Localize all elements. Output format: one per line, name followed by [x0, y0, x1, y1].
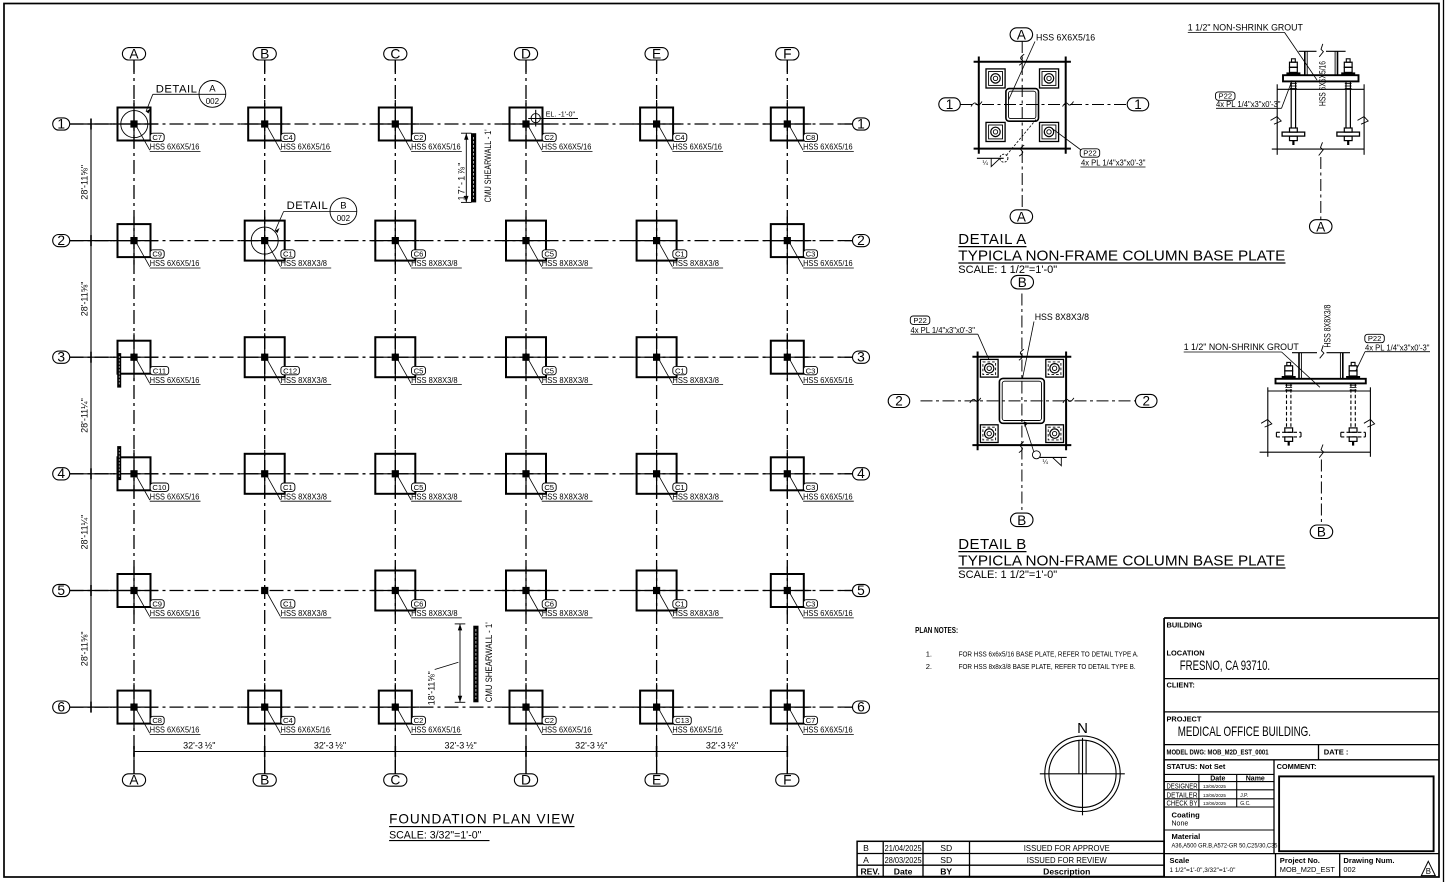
svg-text:A: A — [1017, 209, 1026, 224]
svg-text:28'-11⅝": 28'-11⅝" — [80, 282, 90, 317]
svg-text:HSS 6X6X5/16: HSS 6X6X5/16 — [672, 725, 722, 735]
svg-text:REV.: REV. — [860, 867, 879, 877]
detail A elevation P22 label — [1216, 80, 1293, 109]
detail B anchor bolt bottom-left — [980, 425, 998, 443]
svg-text:ISSUED FOR REVIEW: ISSUED FOR REVIEW — [1027, 855, 1108, 865]
grid bubble 5 left — [53, 583, 70, 598]
svg-text:DETAIL: DETAIL — [156, 83, 198, 95]
svg-text:HSS 8X8X3/8: HSS 8X8X3/8 — [542, 375, 589, 385]
svg-text:17'-1⅞": 17'-1⅞" — [457, 163, 467, 201]
svg-text:HSS 6X6X5/16: HSS 6X6X5/16 — [150, 142, 200, 152]
title block texts — [1167, 621, 1395, 874]
svg-text:HSS 6X6X5/16: HSS 6X6X5/16 — [411, 725, 461, 735]
grid line D vertical — [525, 60, 527, 774]
svg-text:DATE :: DATE : — [1324, 747, 1349, 756]
column C9 at A2 — [110, 217, 201, 269]
svg-text:LOCATION: LOCATION — [1167, 648, 1205, 657]
svg-text:Drawing Num.: Drawing Num. — [1343, 856, 1394, 865]
detail B P22 label — [910, 316, 989, 360]
svg-text:28'-11¼": 28'-11¼" — [80, 515, 90, 550]
column C13 at E6 — [633, 683, 724, 735]
detail A plan centerlines — [960, 41, 1127, 209]
column C5 at C3 — [371, 333, 462, 385]
CMU shearwall label row1 — [483, 129, 493, 202]
detail B grout label — [1184, 342, 1320, 387]
svg-text:32'-3 ½": 32'-3 ½" — [575, 740, 607, 750]
dimension text bay D-E — [575, 740, 607, 750]
svg-text:HSS 8X8X3/8: HSS 8X8X3/8 — [411, 375, 458, 385]
svg-text:1: 1 — [1134, 97, 1142, 112]
column C4 at E1 — [633, 100, 724, 152]
svg-text:HSS 6X6X5/16: HSS 6X6X5/16 — [150, 491, 200, 501]
svg-text:E: E — [652, 773, 661, 788]
grid bubble B bottom — [253, 773, 276, 788]
detail B centerline break marks — [970, 349, 1074, 452]
svg-text:DESIGNER: DESIGNER — [1167, 783, 1198, 790]
svg-text:4x PL 1/4"x3"x0'-3": 4x PL 1/4"x3"x0'-3" — [1365, 342, 1430, 352]
svg-text:4x PL 1/4"x3"x0'-3": 4x PL 1/4"x3"x0'-3" — [1081, 158, 1146, 168]
plan notes — [915, 626, 1139, 671]
svg-text:A: A — [863, 855, 869, 865]
grid bubble 2 left — [53, 233, 70, 248]
svg-text:A: A — [1316, 219, 1325, 234]
svg-text:13/06/2025: 13/06/2025 — [1203, 801, 1226, 806]
column C8 at A6 — [110, 683, 201, 735]
svg-text:F: F — [783, 46, 791, 61]
dimension text row 3-4 — [80, 398, 90, 433]
svg-text:HSS 8X8X3/8: HSS 8X8X3/8 — [281, 491, 328, 501]
detail A callout label — [146, 81, 226, 114]
detail B elevation column — [1292, 345, 1350, 379]
svg-text:1: 1 — [857, 116, 865, 131]
grid line 3 horizontal — [70, 356, 853, 358]
svg-text:HSS 8X8X3/8: HSS 8X8X3/8 — [542, 608, 589, 618]
north arrow — [1040, 720, 1125, 815]
detail A anchor rod left — [1282, 59, 1305, 145]
svg-text:HSS 6X6X5/16: HSS 6X6X5/16 — [281, 142, 331, 152]
detail A anchor bolt bottom-right — [1040, 122, 1059, 141]
grid line E vertical — [656, 60, 658, 774]
svg-text:HSS 6X6X5/16: HSS 6X6X5/16 — [672, 142, 722, 152]
grid line 1 horizontal — [70, 123, 853, 125]
column C1 at E3 — [633, 333, 724, 385]
grid line 4 horizontal — [70, 473, 853, 475]
detail B elevation centerline and bubble — [1310, 460, 1333, 540]
svg-text:COMMENT:: COMMENT: — [1277, 762, 1317, 771]
svg-text:2.: 2. — [926, 662, 932, 671]
svg-text:C: C — [390, 46, 400, 61]
svg-text:Project No.: Project No. — [1280, 856, 1320, 865]
revision triangle B — [1421, 861, 1435, 876]
detail B elevation HSS label (rotated) — [1323, 305, 1333, 348]
svg-text:4x PL 1/4"x3"x0'-3": 4x PL 1/4"x3"x0'-3" — [1216, 99, 1281, 109]
svg-text:HSS 6X6X5/16: HSS 6X6X5/16 — [150, 375, 200, 385]
revision table — [857, 841, 1164, 876]
dimension 17ft for shearwall — [457, 133, 472, 202]
svg-text:1 1/2"=1'-0",3/32"=1'-0": 1 1/2"=1'-0",3/32"=1'-0" — [1170, 867, 1236, 874]
grid bubble 3 right — [853, 350, 870, 365]
svg-text:D: D — [521, 773, 531, 788]
svg-text:A: A — [209, 84, 216, 95]
svg-text:HSS 6X6X5/16: HSS 6X6X5/16 — [150, 725, 200, 735]
svg-text:2: 2 — [895, 394, 903, 409]
svg-text:5: 5 — [857, 583, 865, 598]
column C1 at B4 — [241, 450, 332, 502]
detail A elevation column — [1299, 44, 1346, 75]
column C3 at F4 — [763, 450, 854, 502]
svg-text:CMU SHEARWALL - 1': CMU SHEARWALL - 1' — [484, 622, 494, 702]
column C6 at D5 — [502, 567, 593, 619]
svg-text:C: C — [390, 773, 400, 788]
grid bubble C top — [384, 46, 407, 61]
column C1 at E4 — [633, 450, 724, 502]
detail B callout label — [275, 198, 357, 233]
detail callout circle at column A1 — [121, 111, 148, 138]
detail A P22 label — [1050, 127, 1145, 168]
grid line A vertical — [133, 60, 135, 774]
svg-text:32'-3 ½": 32'-3 ½" — [183, 740, 215, 750]
svg-text:DETAIL A: DETAIL A — [958, 231, 1026, 248]
detail B HSS column section — [999, 378, 1044, 423]
svg-text:2: 2 — [857, 233, 865, 248]
svg-text:HSS 8X8X3/8: HSS 8X8X3/8 — [411, 491, 458, 501]
shearwall bar at A3 — [117, 353, 121, 388]
svg-text:21/04/2025: 21/04/2025 — [885, 843, 922, 853]
svg-text:2: 2 — [1142, 394, 1150, 409]
svg-text:HSS 6X6X5/16: HSS 6X6X5/16 — [150, 258, 200, 268]
CMU shearwall C-D rows5-6 — [473, 626, 478, 703]
svg-text:HSS 6X6X5/16: HSS 6X6X5/16 — [1317, 61, 1327, 106]
svg-text:002: 002 — [1343, 865, 1355, 874]
svg-text:MOB_M2D_EST: MOB_M2D_EST — [1280, 865, 1336, 874]
detail B elevation base plate — [1276, 379, 1366, 384]
svg-text:4x PL 1/4"x3"x0'-3": 4x PL 1/4"x3"x0'-3" — [911, 325, 976, 335]
svg-text:B: B — [340, 201, 346, 212]
grid bubble 4 left — [53, 466, 70, 481]
grid line 5 horizontal — [70, 590, 853, 592]
svg-text:5: 5 — [57, 583, 65, 598]
grid bubble A bottom — [122, 773, 145, 788]
svg-text:32'-3 ½": 32'-3 ½" — [314, 740, 346, 750]
grid bubble 4 right — [853, 466, 870, 481]
svg-text:HSS 8X8X3/8: HSS 8X8X3/8 — [1035, 312, 1089, 322]
column C8 at F1 — [763, 100, 854, 152]
grid line C vertical — [394, 60, 396, 774]
svg-text:HSS 8X8X3/8: HSS 8X8X3/8 — [672, 258, 719, 268]
detail B anchor bolt bottom-right — [1046, 425, 1064, 443]
svg-text:B: B — [1017, 513, 1026, 528]
detail A centerline break marks — [971, 54, 1074, 156]
svg-text:ISSUED FOR APPROVE: ISSUED FOR APPROVE — [1024, 843, 1110, 853]
column C3 at F2 — [763, 217, 854, 269]
svg-text:HSS 6X6X5/16: HSS 6X6X5/16 — [803, 375, 853, 385]
detail A HSS column section — [1006, 89, 1039, 122]
column C10 at A4 — [110, 450, 201, 502]
column C5 at D4 — [502, 450, 593, 502]
column C6 at C2 — [371, 217, 462, 269]
detail A anchor bolt bottom-left — [986, 122, 1005, 141]
svg-text:32'-3 ½": 32'-3 ½" — [444, 740, 476, 750]
svg-text:HSS 6X6X5/16: HSS 6X6X5/16 — [150, 608, 200, 618]
svg-text:TYPICLA NON-FRAME COLUMN BASE: TYPICLA NON-FRAME COLUMN BASE PLATE — [958, 248, 1285, 265]
detail B anchor bolt top-right — [1046, 359, 1064, 377]
svg-text:B: B — [260, 773, 269, 788]
svg-text:A: A — [129, 46, 139, 61]
column C4 at B1 — [241, 100, 332, 152]
grid bubble F bottom — [776, 773, 799, 788]
column C9 at A5 — [110, 567, 201, 619]
column C5 at D3 — [502, 333, 593, 385]
dimension text row 2-3 — [80, 282, 90, 317]
svg-text:Scale: Scale — [1170, 856, 1190, 865]
column C5 at C4 — [371, 450, 462, 502]
grid bubble A top — [122, 46, 145, 61]
detail A grout label — [1188, 23, 1317, 80]
svg-text:B: B — [1317, 525, 1326, 540]
column C3 at F5 — [763, 567, 854, 619]
column C3 at F3 — [763, 333, 854, 385]
CMU shearwall C-D row1 — [471, 133, 476, 202]
svg-text:B: B — [1018, 275, 1027, 290]
svg-text:1 1/2" NON-SHRINK GROUT: 1 1/2" NON-SHRINK GROUT — [1184, 342, 1300, 352]
detail B plan bubbles — [1011, 275, 1034, 290]
detail A HSS label — [1009, 32, 1096, 100]
svg-text:¼: ¼ — [1043, 459, 1049, 466]
svg-text:18'-11⅝": 18'-11⅝" — [427, 671, 437, 705]
grid bubble 6 right — [853, 700, 870, 715]
svg-text:SD: SD — [940, 855, 952, 865]
dimension text bay C-D — [444, 740, 476, 750]
column C7 at A1 — [110, 100, 201, 152]
svg-text:1: 1 — [57, 116, 65, 131]
svg-text:HSS 8X8X3/8: HSS 8X8X3/8 — [281, 375, 328, 385]
title block outline — [1164, 618, 1439, 877]
svg-text:4: 4 — [857, 466, 865, 481]
grid bubble F top — [776, 46, 799, 61]
dimension 18ft for shearwall — [427, 624, 466, 705]
detail A anchor rod right — [1337, 59, 1360, 145]
svg-text:HSS 8X8X3/8: HSS 8X8X3/8 — [672, 375, 719, 385]
svg-text:HSS 8X8X3/8: HSS 8X8X3/8 — [281, 608, 328, 618]
svg-text:HSS 8X8X3/8: HSS 8X8X3/8 — [281, 258, 328, 268]
svg-text:SCALE: 1 1/2"=1'-0": SCALE: 1 1/2"=1'-0" — [958, 264, 1057, 276]
svg-text:28'-11¼": 28'-11¼" — [80, 398, 90, 433]
svg-text:HSS 6X6X5/16: HSS 6X6X5/16 — [803, 491, 853, 501]
grid line 2 horizontal — [70, 240, 853, 242]
svg-text:A36,A500 GR.B,A572-GR 50,C25/3: A36,A500 GR.B,A572-GR 50,C25/30,C35 — [1172, 843, 1278, 850]
svg-text:CMU SHEARWALL - 1': CMU SHEARWALL - 1' — [483, 129, 493, 202]
svg-text:1.: 1. — [926, 650, 932, 659]
bottom dimension line — [134, 746, 787, 757]
left dimension line — [90, 119, 92, 713]
svg-text:13/06/2025: 13/06/2025 — [1203, 784, 1226, 789]
detail A elevation concrete outline — [1271, 84, 1369, 155]
detail A anchor bolt top-right — [1040, 69, 1059, 88]
svg-text:SD: SD — [940, 843, 952, 853]
column C11 at A3 — [110, 333, 201, 385]
svg-text:HSS 6X6X5/16: HSS 6X6X5/16 — [1036, 32, 1095, 42]
column C1 at B2 — [241, 217, 332, 269]
column C6 at C5 — [371, 567, 462, 619]
svg-text:6: 6 — [57, 700, 65, 715]
grid bubble 1 right — [853, 116, 870, 131]
dimension text bay A-B — [183, 740, 215, 750]
svg-text:A: A — [1017, 27, 1026, 42]
svg-text:HSS 6X6X5/16: HSS 6X6X5/16 — [542, 725, 592, 735]
detail A elevation HSS label (rotated) — [1317, 61, 1327, 106]
detail B anchor bolt top-left — [980, 359, 998, 377]
column C4 at B6 — [241, 683, 332, 735]
svg-text:Description: Description — [1043, 867, 1090, 877]
grid bubble C bottom — [384, 773, 407, 788]
svg-text:HSS 6X6X5/16: HSS 6X6X5/16 — [803, 725, 853, 735]
svg-text:002: 002 — [206, 97, 220, 106]
svg-text:A: A — [129, 773, 139, 788]
svg-text:DETAIL: DETAIL — [287, 200, 329, 212]
svg-text:3: 3 — [57, 350, 65, 365]
svg-text:6: 6 — [857, 700, 865, 715]
svg-text:B: B — [863, 843, 869, 853]
column C2 at C6 — [371, 683, 462, 735]
svg-text:DETAIL B: DETAIL B — [958, 536, 1026, 553]
svg-text:SCALE: 1 1/2"=1'-0": SCALE: 1 1/2"=1'-0" — [958, 569, 1057, 581]
svg-text:HSS 8X8X3/8: HSS 8X8X3/8 — [672, 491, 719, 501]
detail A elevation centerline and bubble — [1310, 157, 1333, 234]
detail B elevation concrete outline — [1260, 387, 1375, 457]
grid bubble 5 right — [853, 583, 870, 598]
dimension text row 4-5 — [80, 515, 90, 550]
svg-text:28'-11⅝": 28'-11⅝" — [80, 631, 90, 666]
svg-text:FOUNDATION PLAN VIEW: FOUNDATION PLAN VIEW — [389, 812, 574, 827]
detail B HSS label — [1023, 312, 1090, 378]
dimension text bay B-C — [314, 740, 346, 750]
svg-text:1 1/2" NON-SHRINK GROUT: 1 1/2" NON-SHRINK GROUT — [1188, 23, 1304, 33]
grid bubble 2 right — [853, 233, 870, 248]
svg-text:HSS 8X8X3/8: HSS 8X8X3/8 — [672, 608, 719, 618]
svg-text:PLAN NOTES:: PLAN NOTES: — [915, 626, 958, 635]
svg-text:N: N — [1077, 720, 1088, 737]
svg-text:DETAILER: DETAILER — [1167, 792, 1198, 799]
svg-text:Coating: Coating — [1172, 810, 1201, 819]
svg-text:FOR HSS 8x8x3/8 BASE PLATE, R: FOR HSS 8x8x3/8 BASE PLATE, REFER TO DET… — [959, 662, 1136, 671]
shearwall bar at A4 — [117, 446, 121, 480]
svg-text:13/06/2025: 13/06/2025 — [1203, 793, 1226, 798]
svg-text:BUILDING: BUILDING — [1167, 621, 1203, 630]
svg-text:E: E — [652, 46, 661, 61]
detail A elevation base plate — [1283, 75, 1359, 81]
svg-text:Material: Material — [1172, 832, 1201, 841]
svg-text:HSS 8X8X3/8: HSS 8X8X3/8 — [542, 491, 589, 501]
column C1 at E2 — [633, 217, 724, 269]
grid bubble D top — [514, 46, 537, 61]
dimension text bay E-F — [706, 740, 738, 750]
detail B titles — [958, 536, 1285, 581]
detail B weld symbol — [1024, 422, 1067, 467]
svg-text:1: 1 — [946, 97, 954, 112]
svg-text:28'-11⅝": 28'-11⅝" — [80, 165, 90, 200]
grid bubble 3 left — [53, 350, 70, 365]
detail B anchor rod left — [1276, 362, 1301, 445]
grid bubble E bottom — [645, 773, 668, 788]
detail A base plate — [974, 57, 1071, 154]
grid line 6 horizontal — [70, 706, 853, 708]
svg-text:Date: Date — [894, 867, 913, 877]
CMU shearwall label rows5-6 — [484, 622, 494, 702]
grid bubble E top — [645, 46, 668, 61]
svg-text:B: B — [260, 46, 269, 61]
svg-text:HSS 8X8X3/8: HSS 8X8X3/8 — [542, 258, 589, 268]
grid bubble 6 left — [53, 700, 70, 715]
svg-text:EL. -1'-0": EL. -1'-0" — [546, 109, 576, 118]
svg-text:BY: BY — [940, 867, 952, 877]
column C2 at D6 — [502, 683, 593, 735]
svg-text:F: F — [783, 773, 791, 788]
detail A anchor bolt top-left — [986, 69, 1005, 88]
grid bubble D bottom — [514, 773, 537, 788]
svg-text:HSS 6X6X5/16: HSS 6X6X5/16 — [803, 608, 853, 618]
svg-text:CHECK BY: CHECK BY — [1167, 801, 1198, 808]
svg-text:HSS 6X6X5/16: HSS 6X6X5/16 — [281, 725, 331, 735]
svg-text:STATUS: Not Set: STATUS: Not Set — [1167, 762, 1226, 771]
svg-text:P22: P22 — [1083, 149, 1097, 158]
svg-text:D: D — [521, 46, 531, 61]
svg-text:HSS 6X6X5/16: HSS 6X6X5/16 — [803, 142, 853, 152]
column C2 at C1 — [371, 100, 462, 152]
detail A weld symbol — [977, 120, 1036, 168]
detail B anchor rod right — [1341, 362, 1366, 445]
grid line F vertical — [786, 60, 788, 774]
svg-text:MEDICAL OFFICE BUILDING.: MEDICAL OFFICE BUILDING. — [1178, 723, 1311, 739]
revision rows — [860, 843, 1110, 876]
svg-text:HSS 8X8X3/8: HSS 8X8X3/8 — [1323, 305, 1333, 348]
column C7 at F6 — [763, 683, 854, 735]
detail callout circle at column B2 — [251, 227, 278, 254]
svg-text:FOR HSS 6x6x5/16 BASE PLATE,: FOR HSS 6x6x5/16 BASE PLATE, REFER TO DE… — [959, 650, 1139, 659]
svg-text:None: None — [1172, 820, 1189, 827]
grid bubble B top — [253, 46, 276, 61]
svg-text:HSS 6X6X5/16: HSS 6X6X5/16 — [411, 142, 461, 152]
svg-text:FRESNO, CA 93710.: FRESNO, CA 93710. — [1180, 658, 1270, 673]
grid bubble 1 left — [53, 116, 70, 131]
foundation plan view title — [389, 812, 574, 842]
svg-text:G.C.: G.C. — [1240, 801, 1250, 807]
column C2 at D1 — [502, 100, 593, 152]
column C1 at B5 — [261, 587, 331, 618]
column C1 at E5 — [633, 567, 724, 619]
column C5 at D2 — [502, 217, 593, 269]
column C12 at B3 — [241, 333, 332, 385]
svg-text:CLIENT:: CLIENT: — [1167, 681, 1195, 690]
svg-text:2: 2 — [57, 233, 65, 248]
svg-text:002: 002 — [337, 214, 351, 223]
svg-text:HSS 6X6X5/16: HSS 6X6X5/16 — [803, 258, 853, 268]
svg-text:J.P.: J.P. — [1240, 793, 1248, 799]
svg-text:Name: Name — [1246, 775, 1265, 782]
svg-text:3: 3 — [857, 350, 865, 365]
svg-text:SCALE: 3/32"=1'-0": SCALE: 3/32"=1'-0" — [389, 829, 482, 841]
detail A titles — [958, 231, 1285, 276]
svg-text:TYPICLA NON-FRAME COLUMN BASE: TYPICLA NON-FRAME COLUMN BASE PLATE — [958, 553, 1285, 570]
detail A plan bubbles — [1010, 27, 1033, 42]
spot elevation marker EL -1ft0in at D1 — [528, 109, 578, 126]
svg-text:4: 4 — [57, 466, 65, 481]
svg-text:32'-3 ½": 32'-3 ½" — [706, 740, 738, 750]
svg-text:28/03/2025: 28/03/2025 — [885, 855, 922, 865]
svg-text:MODEL DWG: MOB_M2D_EST_0001: MODEL DWG: MOB_M2D_EST_0001 — [1167, 747, 1270, 756]
svg-text:P22: P22 — [913, 316, 927, 325]
svg-text:B: B — [1426, 867, 1431, 876]
svg-text:Date: Date — [1210, 775, 1225, 782]
